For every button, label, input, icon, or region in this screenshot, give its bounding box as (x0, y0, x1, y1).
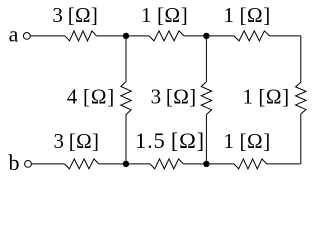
svg-text:1 [Ω]: 1 [Ω] (141, 3, 188, 27)
resistor R5 4 ohm vertical branch 1 (121, 82, 131, 115)
resistor R2 1 ohm top-middle (149, 31, 184, 41)
svg-text:1 [Ω]: 1 [Ω] (224, 129, 271, 153)
wire terminal a to R1 (30, 35, 65, 37)
wire branch 2 lower segment (205, 115, 207, 164)
terminal b open circle (25, 161, 32, 168)
resistor R3 1 ohm top-right (234, 31, 270, 41)
svg-text:1 [Ω]: 1 [Ω] (242, 85, 289, 109)
wire terminal b to R7 (31, 163, 64, 165)
wire branch 1 upper segment (125, 36, 127, 82)
svg-text:1 [Ω]: 1 [Ω] (224, 3, 271, 27)
resistor R6 3 ohm vertical branch 2 (201, 82, 211, 115)
svg-text:3 [Ω]: 3 [Ω] (151, 85, 197, 109)
wire branch 1 lower segment (125, 115, 127, 164)
terminal a open circle (23, 33, 30, 40)
svg-text:3 [Ω]: 3 [Ω] (52, 3, 98, 27)
svg-text:a: a (9, 21, 19, 46)
node junction 2 bottom (203, 161, 209, 167)
resistor R7 3 ohm bottom-left (65, 159, 99, 169)
wire right edge upper segment (300, 36, 302, 82)
node junction 1 top (123, 33, 129, 39)
wire right edge lower segment (300, 114, 302, 164)
resistor R8 1.5 ohm bottom-middle (150, 159, 183, 169)
wire R2 to R3 through node 2 (184, 35, 234, 37)
wire R1 to R2 through node 1 (97, 35, 150, 37)
svg-text:1.5 [Ω]: 1.5 [Ω] (135, 128, 205, 153)
wire R7 to R8 through bottom node 1 (99, 163, 150, 165)
resistor R4 1 ohm right edge vertical (296, 82, 306, 114)
svg-text:4 [Ω]: 4 [Ω] (67, 85, 115, 109)
svg-text:b: b (9, 150, 20, 175)
node junction 1 bottom (123, 161, 129, 167)
wire branch 2 upper segment (205, 36, 207, 82)
resistor R9 1 ohm bottom-right (234, 159, 267, 169)
wire R9 to bottom-right corner (267, 163, 301, 165)
resistor R1 3 ohm top-left (65, 31, 97, 41)
node junction 2 top (203, 33, 209, 39)
wire R3 to top-right corner (270, 35, 301, 37)
wire R8 to R9 through bottom node 2 (183, 163, 234, 165)
svg-text:3 [Ω]: 3 [Ω] (54, 129, 100, 153)
